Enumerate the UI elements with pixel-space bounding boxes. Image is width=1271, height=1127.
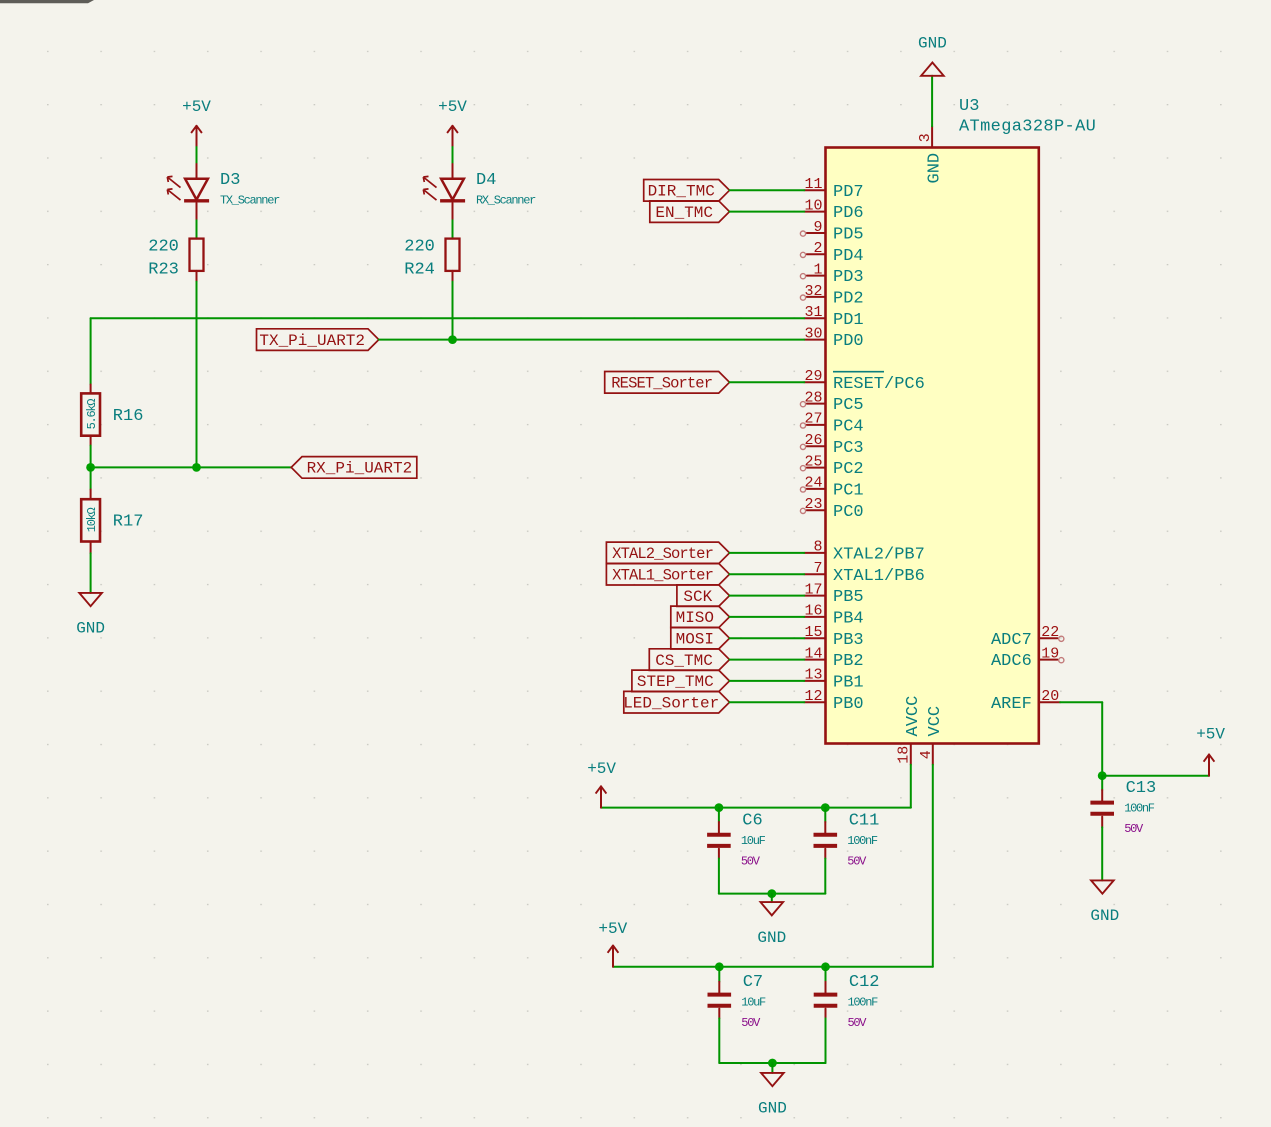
svg-text:RX_Pi_UART2: RX_Pi_UART2 [307,460,413,478]
svg-text:7: 7 [813,560,822,577]
svg-text:PC2: PC2 [833,460,864,479]
svg-text:50V: 50V [847,854,867,868]
net label DIR_TMC [644,180,730,202]
pin 7 (XTAL1/PB6) left side [804,560,925,586]
C6 top pin [718,822,720,833]
C7 bottom pin [718,1009,720,1019]
svg-text:CS_TMC: CS_TMC [655,652,713,670]
power +5V left of C6 [587,760,616,808]
pin 29 (RESET/PC6) left side [804,368,925,394]
net label LED_Sorter [623,691,729,713]
wire rail to C6 [718,808,720,822]
svg-text:RESET_Sorter: RESET_Sorter [611,375,712,393]
net label TX_Pi_UART2 [257,329,379,351]
pin 17 (PB5) left side [804,581,863,607]
svg-text:R24: R24 [404,260,435,279]
svg-text:24: 24 [804,475,822,492]
svg-text:XTAL2/PB7: XTAL2/PB7 [833,546,925,565]
wire R24 to TX_Pi_UART2 net [452,282,454,340]
net label CS_TMC [649,649,729,671]
svg-text:EN_TMC: EN_TMC [655,204,713,222]
svg-text:30: 30 [804,325,822,342]
pin 19 (ADC6) right side [991,645,1064,671]
net label MOSI [671,627,730,649]
power +5V right of C13 [1196,726,1225,776]
C11 reference and value labels [847,811,879,868]
resistor R24 [404,238,459,280]
svg-text:+5V: +5V [1196,726,1225,744]
C7 reference and value labels [741,973,766,1030]
svg-text:31: 31 [804,304,822,321]
C13 bottom pin [1101,817,1103,828]
net label SCK [677,585,730,607]
wire LED_Sorter to pin [730,701,805,703]
svg-text:17: 17 [804,581,822,598]
net label RX_Pi_UART2 [291,457,417,479]
svg-text:27: 27 [804,411,822,428]
C12 top pin [825,982,827,993]
wire C7/C12 bottoms [719,1062,825,1064]
svg-text:C6: C6 [742,811,762,830]
svg-text:PD7: PD7 [833,183,864,202]
svg-text:R23: R23 [148,260,179,279]
svg-text:ADC7: ADC7 [991,631,1032,650]
wire EN_TMC to pin [730,211,805,213]
ground GND below R17 [76,593,105,638]
capacitor C7 [708,995,732,1006]
wire AREF horizontal [1060,701,1102,703]
C13 reference and value labels [1124,779,1156,836]
svg-text:22: 22 [1041,624,1059,641]
svg-text:XTAL1_Sorter: XTAL1_Sorter [612,567,713,585]
D4 cathode pin [452,203,454,220]
svg-text:LED_Sorter: LED_Sorter [623,695,719,713]
ground GND top (pin 3) [918,34,947,76]
svg-text:C13: C13 [1126,779,1157,798]
svg-text:ADC6: ADC6 [991,652,1032,671]
pin 4 (VCC) bottom side [918,706,945,765]
LED D3 [167,176,209,200]
svg-text:GND: GND [918,34,947,52]
junction I (C12 top) [821,962,830,971]
svg-text:50V: 50V [848,1016,868,1030]
svg-text:AREF: AREF [991,695,1032,714]
wire junction to C13 [1101,776,1103,790]
svg-text:32: 32 [804,283,822,300]
svg-text:26: 26 [804,432,822,449]
junction J (C7/C12 gnd) [768,1059,777,1068]
svg-text:+5V: +5V [438,98,467,116]
net label RESET_Sorter [605,372,730,394]
pin 26 (PC3) left side [800,432,863,458]
power +5V above D4 [438,98,467,147]
svg-text:U3: U3 [959,97,979,116]
R17 bottom pin [90,542,92,554]
pin 12 (PB0) left side [804,688,863,714]
net label STEP_TMC [632,670,730,692]
junction A (R16/R17/RX) [86,463,95,472]
wire D3 to R23 [196,220,198,238]
svg-text:GND: GND [757,929,786,947]
svg-text:50V: 50V [741,1016,761,1030]
svg-text:PD1: PD1 [833,311,864,330]
svg-text:50V: 50V [741,854,761,868]
wire +5V to D4 anode [452,147,454,164]
svg-text:5.6kΩ: 5.6kΩ [85,399,99,430]
svg-text:9: 9 [813,219,822,236]
svg-text:C11: C11 [849,811,880,830]
svg-text:XTAL2_Sorter: XTAL2_Sorter [612,545,713,563]
power +5V above D3 [182,98,211,147]
svg-text:23: 23 [804,496,822,513]
svg-text:11: 11 [804,176,822,193]
net label XTAL1_Sorter [606,563,729,585]
pin 10 (PD6) left side [804,197,863,223]
wire D4 to R24 [452,220,454,238]
D3 reference and value labels [220,171,280,208]
svg-text:10: 10 [804,197,822,214]
resistor R23 [148,238,203,280]
C6 reference and value labels [741,811,766,868]
screenshot artifact bar [0,0,94,3]
svg-text:R16: R16 [113,407,144,426]
svg-text:13: 13 [804,667,822,684]
pin 3 (GND) top side [917,126,945,183]
pin 14 (PB2) left side [804,645,863,671]
svg-text:10kΩ: 10kΩ [85,508,99,533]
junction D (AREF/C13/+5V) [1098,771,1107,780]
svg-text:PB2: PB2 [833,652,864,671]
svg-text:10uF: 10uF [741,834,766,848]
svg-text:PD3: PD3 [833,268,864,287]
R23 bottom pin [196,271,198,282]
R24 bottom pin [452,271,454,282]
ground GND below C6/C11 [757,902,786,947]
svg-text:10uF: 10uF [741,996,766,1010]
pin 20 (AREF) right side [991,688,1060,714]
svg-text:PD6: PD6 [833,204,864,223]
wire AREF down [1101,702,1103,776]
svg-text:DIR_TMC: DIR_TMC [648,183,715,201]
ground GND below C7/C12 [758,1073,787,1118]
junction G (C6/C11 gnd) [767,889,776,898]
C11 bottom pin [824,849,826,859]
svg-text:GND: GND [1090,907,1119,925]
pin 13 (PB1) left side [804,667,863,693]
capacitor C12 [814,995,838,1006]
R16 top pin [90,385,92,394]
svg-text:PB0: PB0 [833,695,864,714]
wire C11 down [824,859,826,894]
svg-text:220: 220 [404,238,435,257]
wire TX_Pi_UART2 to PD0 [379,339,804,341]
wire pin3 to GND symbol [931,76,933,126]
stub to GND symbol [771,1063,773,1073]
ground GND below C13 [1090,880,1119,925]
svg-text:GND: GND [758,1100,787,1118]
C6 bottom pin [718,849,720,859]
wire +5V rail (C6/C11) [601,807,911,809]
C12 bottom pin [825,1009,827,1019]
wire VCC down to rail [932,765,934,967]
svg-text:PC5: PC5 [833,396,864,415]
svg-text:29: 29 [804,368,822,385]
svg-text:ATmega328P-AU: ATmega328P-AU [959,117,1096,136]
svg-text:STEP_TMC: STEP_TMC [637,673,714,691]
wire STEP_TMC to pin [730,680,805,682]
pin 22 (ADC7) right side [991,624,1064,650]
svg-text:28: 28 [804,389,822,406]
svg-text:GND: GND [76,620,105,638]
wire DIR_TMC to pin [730,189,805,191]
svg-text:15: 15 [804,624,822,641]
svg-text:PC4: PC4 [833,418,864,437]
D4 anode pin [452,164,454,179]
pin 31 (PD1) left side [804,304,863,330]
pin 28 (PC5) left side [800,389,863,415]
svg-text:PB5: PB5 [833,588,864,607]
svg-text:RX_Scanner: RX_Scanner [476,194,536,208]
svg-text:18: 18 [896,746,913,764]
power +5V left of C7 [598,920,627,967]
C11 top pin [824,822,826,833]
wire MOSI to pin [730,637,805,639]
svg-text:C7: C7 [743,973,763,992]
wire AVCC down to rail [910,765,912,808]
svg-text:PC0: PC0 [833,503,864,522]
svg-text:100nF: 100nF [1124,802,1155,816]
svg-text:MOSI: MOSI [676,631,714,649]
C12 reference and value labels [848,973,880,1030]
pin 11 (PD7) left side [804,176,863,202]
wire CS_TMC to pin [730,659,805,661]
wire XTAL2_Sorter to pin [730,552,805,554]
pin 8 (XTAL2/PB7) left side [804,539,925,565]
svg-text:3: 3 [917,133,934,142]
svg-text:PB4: PB4 [833,610,864,629]
C13 top pin [1101,790,1103,801]
D4 reference and value labels [476,171,536,208]
wire R16 to RX net [90,446,92,468]
net label EN_TMC [650,201,730,223]
wire C12 down [825,1018,827,1063]
pin 1 (PD3) left side [800,261,863,287]
svg-text:1: 1 [813,261,822,278]
junction C (R24/TX) [448,335,457,344]
wire C6 down [718,859,720,894]
capacitor C6 [707,835,731,846]
IC U3 ATmega328P-AU body [826,148,1039,744]
svg-text:MISO: MISO [676,609,714,627]
svg-text:100nF: 100nF [847,834,878,848]
svg-text:2: 2 [813,240,822,257]
wire rail to C11 [824,808,826,822]
capacitor C11 [814,835,838,846]
capacitor C13 [1090,803,1114,814]
wire C13 to GND [1101,827,1103,880]
D3 cathode pin [196,203,198,220]
svg-text:TX_Scanner: TX_Scanner [220,194,280,208]
pin 9 (PD5) left side [800,219,863,245]
svg-text:RESET/PC6: RESET/PC6 [833,375,925,394]
svg-text:+5V: +5V [587,760,616,778]
svg-text:+5V: +5V [598,920,627,938]
C7 top pin [718,982,720,993]
pin 24 (PC1) left side [800,475,863,501]
junction F (C11 top) [821,803,830,812]
svg-text:R17: R17 [113,513,144,532]
svg-text:VCC: VCC [926,706,945,737]
resistor R16 [81,393,143,435]
svg-text:PD5: PD5 [833,226,864,245]
pin 27 (PC4) left side [800,411,863,437]
svg-text:16: 16 [804,603,822,620]
svg-text:PD0: PD0 [833,332,864,351]
wire RX_Pi_UART2 net horizontal [91,466,292,468]
svg-text:100nF: 100nF [848,996,879,1010]
svg-text:19: 19 [1041,645,1059,662]
wire C6/C11 bottoms [719,893,825,895]
wire XTAL1_Sorter to pin [730,573,805,575]
svg-text:PC1: PC1 [833,482,864,501]
svg-text:PD4: PD4 [833,247,864,266]
wire to +5V right [1102,775,1209,777]
net label XTAL2_Sorter [606,542,729,564]
svg-text:12: 12 [804,688,822,705]
pin 15 (PB3) left side [804,624,863,650]
svg-text:25: 25 [804,453,822,470]
svg-text:50V: 50V [1124,822,1144,836]
svg-text:8: 8 [813,539,822,556]
wire +5V to D3 anode [196,147,198,164]
svg-text:PD2: PD2 [833,290,864,309]
wire RX net to R17 [90,467,92,489]
svg-text:4: 4 [918,750,935,759]
pin 18 (AVCC) bottom side [896,696,924,765]
junction B (R23 to RX) [192,463,201,472]
pin 30 (PD0) left side [804,325,863,351]
svg-text:C12: C12 [849,973,880,992]
wire rail to C7 [718,967,720,982]
D3 anode pin [196,164,198,179]
wire R23 to RX_Pi_UART2 net [196,282,198,468]
pin 2 (PD4) left side [800,240,863,266]
LED D4 [423,176,465,200]
svg-text:PC3: PC3 [833,439,864,458]
resistor R17 [81,499,143,541]
wire rail to C12 [825,967,827,982]
svg-text:D3: D3 [220,171,240,190]
wire +5V rail (C7/C12) [613,966,933,968]
pin 16 (PB4) left side [804,603,863,629]
svg-text:AVCC: AVCC [904,696,923,737]
pin 25 (PC2) left side [800,453,863,479]
wire RESET_Sorter to pin [730,381,805,383]
svg-text:14: 14 [804,645,822,662]
junction H (C7 top) [715,962,724,971]
svg-text:GND: GND [926,153,945,184]
pin 23 (PC0) left side [800,496,863,522]
R17 top pin [90,490,92,500]
wire PD1 net vertical to R16 [90,318,92,384]
svg-text:D4: D4 [476,171,496,190]
svg-text:220: 220 [148,238,179,257]
pin 32 (PD2) left side [800,283,863,309]
svg-text:20: 20 [1041,688,1059,705]
wire C7 down [718,1018,720,1063]
svg-text:SCK: SCK [683,588,712,606]
svg-text:+5V: +5V [182,98,211,116]
junction E (C6 top) [715,803,724,812]
wire MISO to pin [730,616,805,618]
R16 bottom pin [90,436,92,446]
stub to GND symbol [771,894,773,903]
svg-text:XTAL1/PB6: XTAL1/PB6 [833,567,925,586]
net label MISO [671,606,730,628]
wire PD1 net horizontal [91,317,805,319]
svg-text:PB3: PB3 [833,631,864,650]
wire R17 to GND [90,553,92,593]
svg-text:PB1: PB1 [833,674,864,693]
svg-text:TX_Pi_UART2: TX_Pi_UART2 [259,332,365,350]
wire SCK to pin [730,595,805,597]
